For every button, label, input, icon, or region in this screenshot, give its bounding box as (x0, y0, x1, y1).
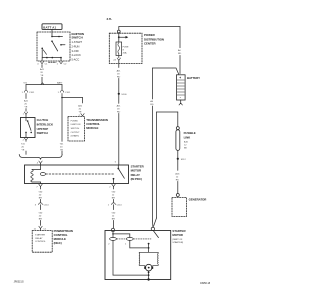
battery negative stub (179, 100, 182, 105)
svg-text:SWITCH: SWITCH (72, 36, 83, 40)
svg-text:STARTER: STARTER (35, 233, 45, 236)
svg-text:RELAY: RELAY (35, 237, 43, 240)
clutch switch pin 1 (23, 112, 28, 118)
wire starter solenoid feed T40 (111, 192, 116, 200)
generator (172, 194, 187, 217)
svg-text:11: 11 (34, 228, 37, 230)
svg-text:(IN PDC): (IN PDC) (131, 177, 142, 181)
connector C101 left pin 1 (22, 91, 35, 95)
svg-text:BATT A1: BATT A1 (43, 25, 56, 29)
svg-text:24: 24 (113, 59, 116, 61)
splice junction to C101 branches (41, 83, 44, 85)
clutch switch pin 2 (23, 138, 28, 142)
wire relay control T40 (38, 192, 43, 200)
ignition switch label (72, 32, 84, 61)
wire battery positive to starter A0 (153, 68, 179, 99)
motor ground to case (147, 271, 149, 281)
clutch switch label (37, 118, 54, 135)
svg-text:3-OFF: 3-OFF (72, 49, 80, 53)
wire stub right (61, 85, 63, 91)
connector C110 pin 1 (108, 203, 123, 207)
svg-text:2-RUN: 2-RUN (72, 44, 80, 48)
svg-text:IGNITION: IGNITION (71, 124, 81, 126)
svg-text:MODULE: MODULE (86, 126, 98, 130)
wire fusible link feed (154, 112, 178, 226)
starter solenoid terminal (from relay) (111, 228, 114, 231)
svg-text:T40: T40 (111, 213, 116, 215)
svg-text:18: 18 (117, 74, 120, 76)
svg-text:A41: A41 (40, 68, 45, 71)
solenoid contact arm (148, 231, 159, 253)
svg-text:A41: A41 (24, 100, 29, 103)
svg-text:5: 5 (115, 162, 117, 164)
svg-text:2: 2 (109, 186, 111, 188)
relay armature dashed link (46, 173, 114, 175)
relay output pin 2 (109, 184, 115, 189)
wire PDC battery feed A0 (119, 27, 180, 48)
svg-text:FUSED: FUSED (71, 120, 79, 122)
svg-text:C101: C101 (65, 92, 71, 94)
ignition connector C1 pin 4 (37, 62, 48, 66)
PCM label (54, 229, 73, 245)
svg-text:YE: YE (79, 111, 82, 113)
ignition switch internal contacts (41, 29, 65, 61)
svg-text:C1: C1 (45, 63, 49, 65)
svg-text:12: 12 (184, 145, 187, 147)
winding 1 return wire (129, 240, 131, 248)
svg-text:LINK: LINK (184, 135, 192, 139)
svg-text:4-LOCK: 4-LOCK (72, 53, 82, 57)
transmission control module dashed box (68, 117, 85, 142)
ignition switch U-IGN dashed box (37, 32, 70, 61)
svg-text:(START): (START) (71, 135, 80, 138)
svg-text:BK: BK (184, 148, 187, 150)
svg-text:20: 20 (39, 195, 42, 197)
wire down to relay (118, 113, 120, 165)
svg-text:A21: A21 (117, 105, 122, 108)
connector tie line (49, 61, 57, 63)
svg-text:1: 1 (58, 92, 60, 94)
svg-text:5-ACC: 5-ACC (72, 58, 80, 62)
battery (177, 75, 186, 100)
svg-text:BATTERY: BATTERY (187, 76, 200, 80)
svg-text:T41: T41 (21, 143, 26, 145)
wire ignition output A41 (41, 65, 43, 68)
wire PDC to relay A21 (118, 64, 120, 68)
svg-text:T41: T41 (60, 143, 65, 145)
relay coil pin 4 (37, 161, 42, 165)
svg-text:4: 4 (37, 63, 39, 65)
svg-text:A21: A21 (117, 70, 122, 73)
svg-text:3: 3 (35, 205, 37, 207)
svg-text:12: 12 (112, 216, 115, 218)
relay coil (31, 165, 46, 184)
motor field housing (139, 252, 158, 265)
winding 2 ground wire (112, 240, 114, 275)
svg-text:1: 1 (23, 113, 25, 115)
svg-text:OUTPUT: OUTPUT (71, 132, 81, 134)
svg-text:JR0021G: JR0021G (14, 281, 24, 284)
connector C101 right pin 1 (58, 91, 71, 95)
svg-text:1-START: 1-START (72, 40, 83, 44)
svg-text:7: 7 (36, 186, 38, 188)
splice S112 (177, 158, 179, 160)
relay switch contact (113, 165, 125, 184)
wire TCM branch (61, 97, 82, 103)
solenoid windings (108, 232, 151, 246)
svg-text:20: 20 (60, 146, 63, 148)
svg-text:UPSTOP: UPSTOP (37, 127, 49, 131)
svg-text:8: 8 (123, 49, 125, 51)
wire branch bus (26, 84, 62, 86)
svg-text:A0: A0 (150, 100, 153, 103)
svg-text:20: 20 (39, 216, 42, 218)
TCM pin 2 (79, 114, 85, 117)
svg-text:20: 20 (40, 72, 43, 74)
svg-text:18: 18 (117, 109, 120, 111)
svg-text:C2: C2 (64, 63, 68, 65)
svg-text:20: 20 (79, 108, 82, 110)
svg-text:+: + (179, 76, 181, 80)
svg-text:1: 1 (22, 92, 24, 94)
PDC output pin 24 (113, 58, 120, 64)
svg-text:2: 2 (108, 243, 110, 245)
svg-text:FUSIBLE: FUSIBLE (184, 131, 196, 135)
svg-text:POWER: POWER (144, 33, 156, 37)
BATT A1 feed box (42, 24, 62, 30)
svg-text:MOTOR: MOTOR (172, 233, 183, 237)
svg-text:CLUTCH: CLUTCH (37, 118, 49, 122)
wire splice to generator A16 (177, 160, 179, 171)
svg-text:CONTROL: CONTROL (35, 241, 46, 243)
wire clutch output T41 (25, 140, 27, 143)
svg-text:S112: S112 (181, 159, 187, 161)
svg-text:CENTER: CENTER (144, 42, 157, 46)
starter motor box (105, 231, 171, 280)
PDC label (144, 33, 164, 46)
svg-text:DISTRIBUTION: DISTRIBUTION (144, 37, 164, 41)
svg-text:04958-18: 04958-18 (200, 282, 211, 285)
svg-text:A16: A16 (184, 141, 189, 144)
svg-text:12: 12 (112, 195, 115, 197)
starter B+ terminal (151, 227, 154, 230)
relay coil ground pin 7 (36, 184, 42, 189)
wire right branch down to brace (61, 94, 63, 142)
starter motor relay box (25, 165, 129, 184)
svg-text:A16: A16 (175, 173, 180, 176)
svg-text:A41: A41 (78, 104, 83, 107)
svg-text:STARTER): STARTER) (172, 241, 183, 244)
svg-text:SWITCH: SWITCH (71, 128, 80, 130)
svg-text:FUSE: FUSE (123, 46, 129, 48)
power distribution center dashed box (109, 33, 142, 63)
svg-text:RD: RD (178, 53, 182, 55)
svg-text:SWITCH: SWITCH (37, 131, 48, 135)
wire to clutch switch (25, 94, 27, 99)
svg-text:3.7L: 3.7L (107, 17, 113, 21)
svg-text:STARTER: STARTER (172, 229, 186, 233)
svg-text:(PART OF: (PART OF (172, 238, 183, 241)
splice S100 (118, 93, 120, 95)
svg-text:20: 20 (21, 146, 24, 148)
svg-text:1: 1 (125, 243, 127, 245)
svg-text:T40: T40 (38, 192, 43, 194)
svg-text:T40: T40 (111, 192, 116, 194)
svg-text:INTERLOCK: INTERLOCK (37, 122, 54, 126)
starter label (172, 229, 186, 244)
PDC feed terminal (117, 30, 120, 33)
brace merge to relay (19, 154, 62, 159)
svg-text:C1: C1 (43, 228, 47, 230)
starter motor armature (144, 264, 153, 271)
powertrain control module dashed box (32, 231, 52, 253)
svg-text:S100: S100 (121, 94, 127, 96)
svg-text:C110: C110 (117, 205, 123, 207)
clutch switch contacts (25, 118, 32, 138)
svg-text:4: 4 (37, 163, 39, 165)
svg-text:YE: YE (21, 149, 24, 151)
clutch interlock upstop switch box (21, 118, 36, 138)
svg-text:-: - (180, 96, 181, 100)
fuse 8 20A (116, 39, 122, 58)
svg-text:Y21: Y21 (23, 82, 28, 84)
svg-text:C101: C101 (29, 92, 35, 94)
svg-text:1: 1 (108, 205, 110, 207)
svg-text:2: 2 (23, 140, 25, 142)
svg-text:BATT: BATT (57, 81, 63, 84)
svg-text:1: 1 (57, 63, 59, 65)
wire link to splice (177, 150, 179, 157)
svg-text:GENERATOR: GENERATOR (189, 197, 208, 201)
svg-text:20A: 20A (123, 51, 127, 54)
ignition connector C2 pin 1 (57, 62, 68, 66)
PDC bus junction and feed arrow (118, 33, 128, 39)
svg-text:T40: T40 (38, 213, 43, 215)
PCM pin 11 C1 (34, 226, 47, 230)
wire stub left (25, 85, 27, 91)
svg-text:C110: C110 (44, 205, 50, 207)
connector C110 pin 3 (35, 203, 50, 207)
svg-text:20: 20 (24, 104, 27, 106)
svg-text:12: 12 (176, 177, 179, 179)
TCM label (86, 118, 108, 130)
svg-text:(NGC): (NGC) (54, 241, 62, 245)
svg-text:A0: A0 (178, 49, 181, 52)
fusible link (176, 127, 180, 151)
relay label (131, 164, 145, 181)
